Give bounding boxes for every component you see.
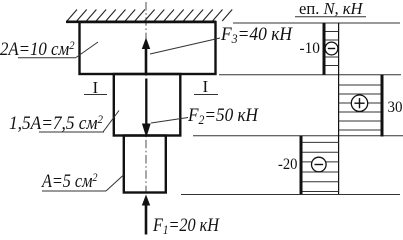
plus sign circle bbox=[351, 95, 367, 111]
leader line label A bbox=[106, 175, 124, 191]
N bar -10 hatching bbox=[324, 32, 339, 66]
bar segment 2 (1.5A) bbox=[114, 74, 181, 136]
force arrow F2 bbox=[142, 79, 151, 138]
leader line F3 bbox=[150, 38, 220, 54]
leader line label 1,5A bbox=[103, 111, 119, 133]
svg-text:A=5 см2: A=5 см2 bbox=[40, 170, 97, 192]
N bar -20 value line bbox=[300, 136, 303, 194]
wall hatching bbox=[67, 10, 232, 22]
leader line label 2A bbox=[76, 42, 98, 58]
svg-text:1,5A=7,5 см2: 1,5A=7,5 см2 bbox=[9, 112, 103, 134]
svg-text:еп. N, кН: еп. N, кН bbox=[299, 0, 364, 18]
underline 1,5A bbox=[39, 131, 104, 133]
N bar -10 value line bbox=[323, 23, 326, 75]
svg-text:F3=40 кН: F3=40 кН bbox=[220, 24, 293, 46]
N diagram axis bbox=[338, 23, 340, 194]
bar segment 1 (2A) bbox=[80, 22, 216, 74]
N bar +30 value line bbox=[381, 75, 384, 137]
reference line step1 bbox=[219, 74, 401, 76]
svg-text:30: 30 bbox=[388, 99, 403, 116]
minus sign circle top bbox=[325, 42, 338, 55]
svg-text:-10: -10 bbox=[300, 40, 321, 57]
bar segment 3 (A) bbox=[124, 136, 166, 193]
minus sign circle bottom bbox=[312, 157, 327, 172]
force arrow F3 bbox=[142, 38, 150, 74]
N bar -20 hatching bbox=[301, 142, 339, 191]
underline ep. N bbox=[295, 16, 366, 18]
centerline bbox=[145, 2, 147, 192]
svg-text:2A=10 см2: 2A=10 см2 bbox=[0, 38, 75, 60]
N bar +30 hatching bbox=[339, 85, 382, 130]
underline I left bbox=[84, 94, 107, 96]
underline 2A bbox=[18, 57, 76, 59]
reference line bottom bbox=[181, 194, 400, 196]
underline A bbox=[42, 190, 106, 192]
ceiling line bbox=[66, 20, 216, 23]
force arrow F1 bbox=[142, 195, 150, 235]
reference line step2 bbox=[193, 135, 403, 137]
leader line F2 bbox=[151, 118, 188, 124]
reference line top bbox=[233, 22, 400, 24]
svg-text:F2=50 кН: F2=50 кН bbox=[187, 105, 259, 127]
underline I right bbox=[194, 94, 218, 96]
svg-text:I: I bbox=[203, 77, 209, 96]
svg-text:-20: -20 bbox=[278, 156, 298, 173]
svg-text:F1=20 кН: F1=20 кН bbox=[152, 215, 220, 237]
